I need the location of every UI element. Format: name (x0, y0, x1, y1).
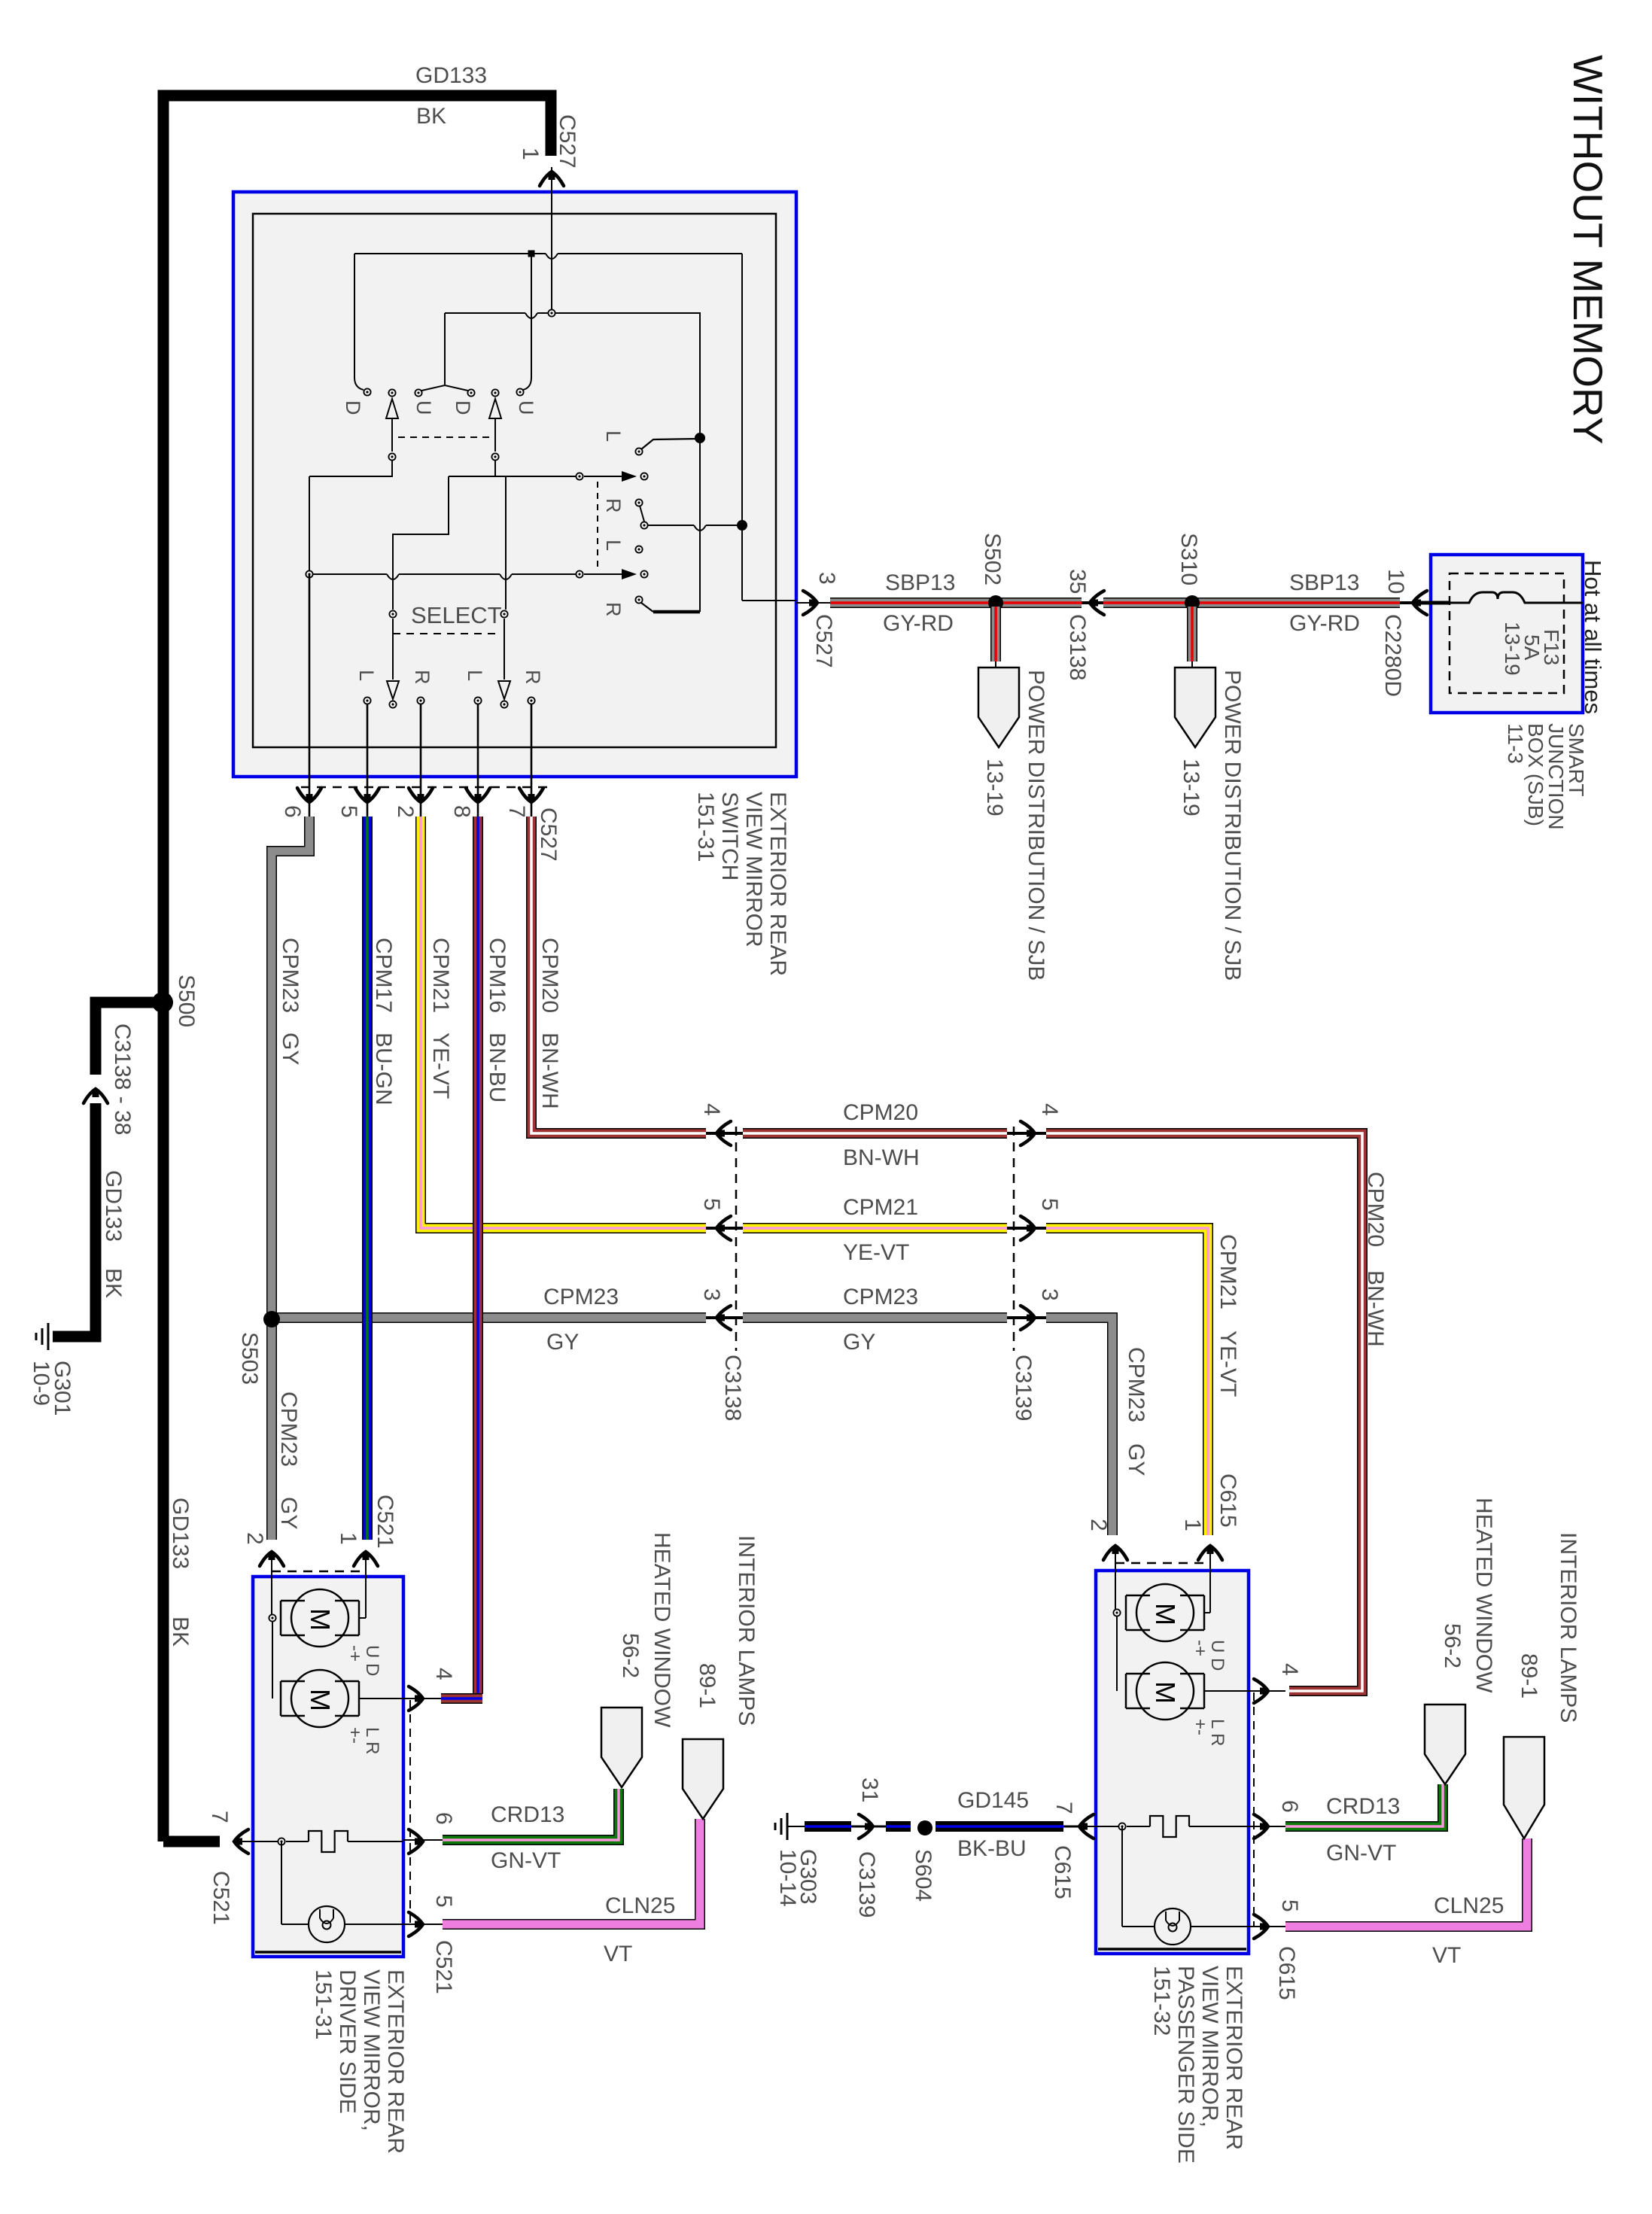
svg-text:151-31: 151-31 (311, 1969, 336, 2039)
svg-text:VIEW MIRROR,: VIEW MIRROR, (1197, 1966, 1222, 2127)
svg-text:GY: GY (276, 1497, 301, 1529)
svg-text:C521: C521 (431, 1940, 456, 1994)
svg-text:R: R (602, 602, 625, 617)
svg-text:C3139: C3139 (854, 1851, 879, 1917)
svg-text:3: 3 (699, 1288, 724, 1301)
svg-text:CPM20: CPM20 (537, 938, 562, 1013)
svg-text:5: 5 (1037, 1198, 1062, 1211)
svg-text:C527: C527 (555, 114, 580, 169)
svg-text:11-3: 11-3 (1504, 723, 1527, 764)
svg-text:GY: GY (278, 1032, 303, 1065)
svg-text:HEATED WINDOW: HEATED WINDOW (650, 1532, 674, 1728)
svg-text:CPM23: CPM23 (843, 1285, 918, 1309)
svg-text:GD133: GD133 (101, 1170, 126, 1242)
svg-text:M: M (1150, 1603, 1181, 1626)
svg-text:L: L (464, 670, 486, 681)
svg-text:C527: C527 (811, 614, 836, 668)
svg-text:BN-WH: BN-WH (1363, 1270, 1388, 1347)
svg-text:13-19: 13-19 (1501, 622, 1524, 676)
svg-text:C3138: C3138 (1065, 614, 1090, 680)
svg-text:R: R (522, 670, 544, 685)
svg-text:CPM23: CPM23 (276, 1391, 301, 1467)
svg-text:56-2: 56-2 (1440, 1623, 1465, 1668)
svg-text:L: L (355, 670, 378, 681)
svg-text:EXTERIOR REAR: EXTERIOR REAR (1222, 1966, 1246, 2150)
svg-text:YE-VT: YE-VT (1215, 1331, 1240, 1397)
svg-text:6: 6 (280, 805, 305, 818)
svg-text:INTERIOR LAMPS: INTERIOR LAMPS (734, 1535, 759, 1726)
svg-text:CPM23: CPM23 (543, 1285, 619, 1309)
svg-text:R: R (602, 498, 625, 513)
svg-text:BK: BK (416, 104, 446, 129)
svg-text:7: 7 (1051, 1802, 1076, 1814)
svg-text:L: L (602, 430, 625, 442)
svg-text:CPM21: CPM21 (1215, 1234, 1240, 1309)
svg-text:U: U (515, 400, 537, 415)
svg-text:GN-VT: GN-VT (491, 1848, 561, 1873)
svg-text:D: D (342, 400, 364, 415)
svg-text:HEATED WINDOW: HEATED WINDOW (1471, 1498, 1496, 1693)
svg-text:SBP13: SBP13 (1289, 570, 1359, 595)
svg-text:3: 3 (814, 572, 839, 585)
svg-text:35: 35 (1065, 569, 1090, 594)
svg-text:5: 5 (431, 1895, 456, 1908)
svg-text:-+: -+ (345, 1645, 365, 1662)
svg-text:VIEW MIRROR,: VIEW MIRROR, (359, 1969, 384, 2131)
svg-text:GY-RD: GY-RD (883, 611, 954, 636)
svg-text:10-14: 10-14 (775, 1849, 800, 1907)
svg-text:POWER DISTRIBUTION / SJB: POWER DISTRIBUTION / SJB (1220, 670, 1245, 981)
svg-text:U D: U D (362, 1645, 382, 1676)
svg-text:YE-VT: YE-VT (843, 1240, 909, 1265)
svg-text:BK-BU: BK-BU (957, 1836, 1027, 1861)
svg-text:C3138 - 38: C3138 - 38 (110, 1023, 135, 1135)
svg-text:DRIVER SIDE: DRIVER SIDE (335, 1969, 360, 2114)
svg-text:-+: -+ (1190, 1640, 1210, 1656)
svg-text:7: 7 (207, 1811, 232, 1823)
svg-text:L R: L R (362, 1727, 382, 1754)
svg-text:VIEW MIRROR: VIEW MIRROR (741, 792, 766, 947)
svg-text:CPM16: CPM16 (485, 938, 510, 1013)
svg-text:SWITCH: SWITCH (717, 792, 742, 880)
svg-text:S503: S503 (237, 1332, 262, 1385)
svg-text:CRD13: CRD13 (1326, 1794, 1400, 1819)
svg-text:1: 1 (518, 147, 543, 160)
svg-text:2: 2 (393, 805, 418, 818)
svg-text:S310: S310 (1176, 533, 1201, 585)
svg-text:+-: +- (1190, 1719, 1210, 1735)
svg-text:POWER DISTRIBUTION / SJB: POWER DISTRIBUTION / SJB (1024, 670, 1048, 981)
svg-text:M: M (305, 1608, 336, 1631)
svg-text:S604: S604 (911, 1849, 936, 1902)
svg-text:151-32: 151-32 (1149, 1966, 1174, 2036)
svg-text:Hot at all times: Hot at all times (1580, 560, 1606, 714)
svg-text:3: 3 (1037, 1288, 1062, 1301)
svg-text:CPM20: CPM20 (1363, 1172, 1388, 1247)
svg-text:BK: BK (168, 1616, 193, 1647)
svg-text:89-1: 89-1 (695, 1663, 720, 1708)
svg-text:5: 5 (699, 1198, 724, 1211)
svg-text:6: 6 (431, 1812, 456, 1825)
svg-text:S500: S500 (174, 975, 199, 1027)
svg-text:C615: C615 (1050, 1845, 1075, 1899)
svg-text:+-: +- (345, 1727, 365, 1744)
svg-text:31: 31 (857, 1778, 882, 1802)
svg-text:2: 2 (1086, 1519, 1111, 1531)
svg-text:VT: VT (604, 1942, 632, 1966)
svg-text:BU-GN: BU-GN (371, 1032, 396, 1105)
svg-text:GD133: GD133 (415, 63, 487, 88)
svg-text:R: R (411, 670, 434, 685)
svg-text:13-19: 13-19 (1179, 759, 1203, 817)
svg-text:YE-VT: YE-VT (428, 1032, 453, 1099)
svg-text:10-9: 10-9 (29, 1361, 53, 1406)
svg-text:GY-RD: GY-RD (1289, 611, 1360, 636)
svg-text:BK: BK (101, 1268, 126, 1298)
svg-text:7: 7 (504, 805, 529, 818)
svg-text:89-1: 89-1 (1517, 1653, 1541, 1699)
svg-text:C3139: C3139 (1011, 1355, 1036, 1421)
svg-text:EXTERIOR REAR: EXTERIOR REAR (383, 1969, 408, 2154)
svg-text:GY: GY (546, 1330, 579, 1355)
svg-text:GD145: GD145 (957, 1788, 1029, 1813)
svg-text:5: 5 (1277, 1899, 1302, 1912)
svg-text:CPM21: CPM21 (428, 938, 453, 1013)
svg-text:BN-WH: BN-WH (843, 1145, 920, 1170)
svg-text:BN-WH: BN-WH (537, 1032, 562, 1109)
svg-text:GY: GY (843, 1330, 875, 1355)
svg-text:10: 10 (1383, 569, 1408, 594)
svg-text:EXTERIOR REAR: EXTERIOR REAR (765, 792, 790, 976)
svg-text:CRD13: CRD13 (491, 1802, 564, 1827)
svg-text:CPM21: CPM21 (843, 1195, 918, 1220)
svg-text:C521: C521 (373, 1495, 397, 1549)
svg-text:5: 5 (336, 805, 361, 818)
svg-text:CPM23: CPM23 (1124, 1347, 1148, 1422)
svg-text:2: 2 (242, 1532, 267, 1545)
svg-text:CLN25: CLN25 (1434, 1893, 1504, 1918)
svg-text:CPM23: CPM23 (278, 938, 303, 1013)
svg-text:U D: U D (1207, 1640, 1228, 1671)
svg-text:M: M (305, 1689, 336, 1711)
svg-text:4: 4 (1037, 1103, 1062, 1116)
svg-text:151-31: 151-31 (693, 792, 718, 862)
svg-text:BN-BU: BN-BU (485, 1032, 510, 1102)
svg-text:1: 1 (1180, 1519, 1205, 1531)
svg-text:L R: L R (1207, 1719, 1228, 1746)
svg-text:1: 1 (336, 1532, 361, 1545)
svg-text:13-19: 13-19 (982, 759, 1007, 817)
svg-text:56-2: 56-2 (618, 1633, 643, 1678)
svg-text:PASSENGER SIDE: PASSENGER SIDE (1173, 1966, 1198, 2164)
svg-text:GD133: GD133 (168, 1498, 193, 1569)
svg-text:INTERIOR LAMPS: INTERIOR LAMPS (1556, 1532, 1581, 1723)
svg-text:6: 6 (1277, 1800, 1302, 1813)
svg-text:L: L (602, 540, 625, 551)
svg-text:4: 4 (1277, 1663, 1302, 1676)
svg-text:4: 4 (699, 1103, 724, 1116)
svg-text:SELECT: SELECT (411, 602, 502, 628)
svg-text:CPM20: CPM20 (843, 1100, 918, 1125)
svg-text:VT: VT (1432, 1943, 1461, 1968)
svg-text:U: U (412, 400, 435, 415)
svg-text:C2280D: C2280D (1380, 614, 1405, 697)
svg-text:C615: C615 (1215, 1473, 1240, 1528)
svg-text:GY: GY (1124, 1443, 1148, 1476)
svg-text:C527: C527 (536, 807, 561, 862)
svg-text:S502: S502 (980, 533, 1005, 585)
svg-text:D: D (452, 400, 474, 415)
svg-text:4: 4 (431, 1668, 456, 1680)
svg-text:C615: C615 (1274, 1946, 1299, 2000)
svg-text:CLN25: CLN25 (605, 1893, 675, 1918)
svg-text:CPM17: CPM17 (371, 938, 396, 1013)
svg-text:M: M (1150, 1681, 1181, 1704)
svg-text:GN-VT: GN-VT (1326, 1841, 1396, 1866)
svg-text:WITHOUT MEMORY: WITHOUT MEMORY (1565, 55, 1611, 444)
svg-text:8: 8 (449, 805, 474, 818)
svg-text:C3138: C3138 (720, 1355, 745, 1421)
svg-text:SBP13: SBP13 (885, 570, 955, 595)
svg-text:C521: C521 (208, 1871, 233, 1925)
